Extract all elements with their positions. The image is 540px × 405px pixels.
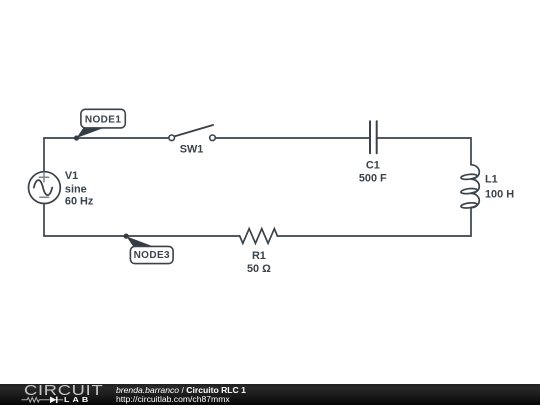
voltage source V1 circle (29, 172, 61, 204)
svg-text:L1: L1 (485, 174, 498, 186)
inductor L1 coil (461, 165, 480, 209)
footer author / title line (116, 386, 246, 395)
svg-text:60 Hz: 60 Hz (65, 196, 94, 208)
wire below L1 to bottom-right corner (277, 208, 471, 236)
callout NODE1 pointer (77, 128, 105, 138)
svg-text:NODE1: NODE1 (85, 115, 121, 126)
wire switch to C1 (215, 137, 370, 139)
svg-text:NODE3: NODE3 (134, 250, 170, 261)
svg-text:R1: R1 (252, 250, 266, 262)
voltage source V1 sine wave (34, 180, 52, 195)
wire top-left horizontal (44, 137, 169, 139)
logo resistor-diode glyph (21, 395, 67, 405)
callout NODE3 box (130, 246, 173, 263)
svg-text:sine: sine (65, 183, 87, 195)
switch SW1 (169, 125, 215, 141)
svg-text:SW1: SW1 (180, 144, 204, 156)
callout NODE1 box (81, 109, 125, 128)
node NODE3 junction dot (124, 234, 129, 239)
wire left vertical upper (43, 138, 45, 172)
polarity plus (39, 173, 48, 182)
polarity minus (40, 196, 49, 198)
wire bottom-left horizontal (44, 235, 240, 237)
capacitor C1 (370, 121, 377, 153)
svg-text:500 F: 500 F (359, 173, 387, 185)
wire left vertical lower (43, 204, 45, 237)
node NODE1 junction dot (74, 135, 79, 140)
svg-text:50 Ω: 50 Ω (247, 263, 271, 275)
footer bar (0, 384, 540, 405)
callout NODE3 pointer (126, 236, 154, 247)
wire C1 to top-right corner down to L1 (377, 138, 471, 165)
svg-text:C1: C1 (366, 160, 380, 172)
logo LAB wordmark (64, 396, 91, 403)
CircuitLab logo CIRCUIT wordmark (24, 384, 103, 398)
svg-text:V1: V1 (65, 170, 78, 182)
svg-text:100 H: 100 H (485, 189, 514, 201)
footer url line (116, 395, 230, 404)
resistor R1 zigzag (240, 229, 278, 244)
